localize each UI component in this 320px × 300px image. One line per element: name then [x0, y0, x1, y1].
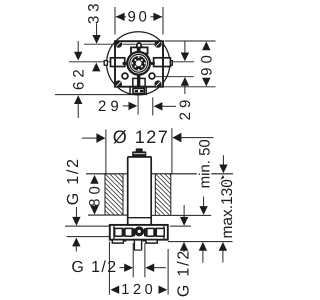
protective cap top [136, 148, 143, 153]
top view: round flange circle [107, 32, 170, 95]
dim 90 top: ext lines [114, 7, 116, 35]
svg-text:29: 29 [98, 98, 123, 115]
bottom clamp box [133, 78, 145, 86]
dim 120: ext lines [108, 242, 110, 295]
dim 62: leader top [77, 41, 79, 52]
cartridge stem bottom [137, 75, 140, 86]
left rim notch [104, 61, 107, 66]
svg-text:G 1/2: G 1/2 [65, 157, 82, 205]
svg-text:33: 33 [86, 0, 103, 24]
dim 29 right: arrow [154, 102, 163, 110]
dim O127: right arrow [172, 133, 181, 143]
svg-text:80: 80 [87, 182, 104, 207]
wall back line right [151, 214, 211, 216]
vertical centerline (below circle) [137, 95, 139, 114]
dim max. 130: bottom arrow [219, 242, 227, 251]
corner screw BR [154, 80, 161, 87]
flange bottom ext line right [168, 241, 233, 243]
svg-text:62: 62 [70, 65, 87, 90]
dim min. 50: arrow [222, 155, 224, 165]
dim O127: ext lines [105, 130, 107, 174]
dim min. 50: label [196, 139, 213, 188]
dim max. 130: label [219, 179, 236, 239]
core notches [138, 56, 140, 57]
dim 80: arrows + label [90, 175, 98, 184]
right inner dim arrows [184, 42, 186, 54]
right tab nub [150, 62, 154, 65]
cartridge mid ring [130, 54, 148, 72]
right wall section [154, 174, 156, 215]
hole axis ext line [156, 76, 194, 78]
right side tab [154, 58, 171, 67]
wall surface line right [151, 173, 233, 175]
core corner dots [134, 59, 136, 61]
dim O127: left arrow [82, 137, 98, 139]
wall surface line left [86, 173, 128, 175]
svg-text:90: 90 [128, 8, 150, 25]
left fixing hole [122, 73, 128, 79]
port thread ext lines [132, 243, 134, 277]
dim 33: leader and arrows [96, 24, 98, 36]
sleeve shoulder line [128, 217, 152, 219]
mid label arrow [199, 242, 207, 251]
port label arrow right [180, 242, 188, 251]
dim max. 130: top arrow [219, 175, 227, 184]
cartridge outer ring [127, 52, 150, 75]
corner screw TR [154, 41, 161, 48]
protective cap base [132, 151, 146, 157]
right rim notch [169, 61, 172, 66]
dim G1/2 bottom left: arrow [120, 267, 125, 269]
svg-text:90: 90 [198, 51, 215, 76]
plate edge across tabs [114, 58, 116, 67]
right foot [146, 240, 157, 243]
dim 90 right: arrows [202, 41, 210, 50]
dim 90 top: dimension line + arrows [116, 16, 126, 18]
port bottom ext line left [67, 236, 110, 238]
bottom port [133, 240, 135, 251]
dim G1/2 bottom right: arrow [145, 264, 154, 272]
min50 lower arrow [203, 197, 205, 208]
top guide bushing [137, 43, 142, 48]
flange top ext line left [65, 225, 110, 227]
center inlet boss [134, 226, 144, 236]
dim 62: bottom arrow [74, 95, 82, 104]
cartridge core [131, 56, 146, 71]
bottom tab [129, 87, 131, 94]
right fixing hole [149, 73, 155, 79]
svg-text:min. 50: min. 50 [196, 139, 213, 188]
corner screw BL [115, 80, 122, 87]
cartridge collar [131, 47, 148, 53]
corner screw TL [115, 41, 122, 48]
dim 29 left: arrow [123, 105, 130, 107]
screw axis inner segments [122, 43, 135, 45]
svg-text:Ø 127: Ø 127 [113, 127, 170, 147]
svg-text:G 1/2: G 1/2 [176, 249, 193, 297]
svg-text:29: 29 [177, 96, 194, 121]
horizontal centerline [69, 61, 194, 63]
bottom tab insert [133, 88, 144, 93]
port top arrow right [183, 205, 185, 217]
mounting plate [115, 41, 163, 86]
svg-text:G 1/2: G 1/2 [71, 259, 117, 276]
under-flange nubs [124, 240, 127, 242]
flange boxes [115, 228, 123, 236]
plate lower ext line [55, 94, 147, 96]
svg-text:120: 120 [121, 282, 156, 298]
supply sleeve body [128, 157, 152, 225]
dim 90 right: ext lines [165, 40, 216, 42]
flange end bar left [113, 226, 115, 239]
svg-text:max.130: max.130 [219, 179, 236, 239]
left foot [112, 240, 123, 243]
valve housing flange [110, 225, 168, 240]
flange end bar right [163, 226, 165, 239]
wall back line left [88, 214, 128, 216]
dim 29 right: ext line [152, 97, 154, 115]
flange gap fills [122, 228, 125, 236]
dim 120: arrows + label [110, 286, 119, 294]
core center [136, 60, 142, 66]
cap groove [133, 153, 145, 155]
screw axis ext line [84, 43, 112, 45]
flange top ext line right [170, 225, 191, 227]
left side tab [111, 58, 125, 67]
dim G1/2 wall left: arrows [75, 207, 77, 217]
left tab nub [123, 62, 127, 65]
cartridge stem top [137, 44, 141, 53]
